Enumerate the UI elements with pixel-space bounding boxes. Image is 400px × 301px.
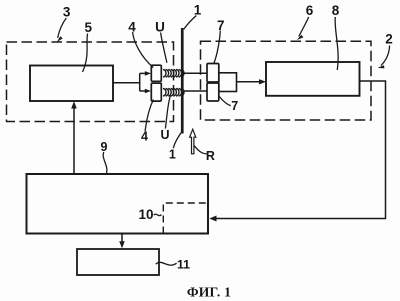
leader for label 7 top — [214, 31, 221, 64]
svg-text:ФИГ. 1: ФИГ. 1 — [187, 285, 231, 300]
arrow from block 9 down to block 11 — [121, 234, 123, 243]
leader for label 2 — [381, 46, 390, 66]
svg-text:4: 4 — [128, 20, 136, 35]
leader for label U bottom — [165, 96, 170, 129]
dashed box 10 inside block 9 — [163, 203, 208, 234]
rod lower from bar to element 7 — [184, 90, 207, 92]
dashed box 3 — [7, 42, 174, 122]
spring upper — [163, 70, 184, 77]
svg-text:10: 10 — [138, 207, 153, 222]
block 9 — [27, 174, 209, 234]
leader for label 8 — [335, 17, 338, 70]
arrow into element 4 lower — [140, 90, 146, 92]
leader for label 4 bottom — [145, 100, 153, 132]
bar 1 (membrane) — [181, 28, 184, 134]
element 4 upper square — [151, 65, 161, 81]
svg-text:8: 8 — [332, 3, 340, 18]
svg-text:1: 1 — [194, 3, 202, 18]
squiggle for label 11 — [156, 262, 177, 265]
leader for label 1 top — [184, 16, 197, 30]
block 5 — [30, 66, 113, 102]
svg-text:2: 2 — [385, 32, 393, 47]
arrow into element 4 upper — [140, 72, 146, 74]
svg-text:9: 9 — [101, 140, 108, 154]
rod upper from bar to element 7 — [184, 72, 207, 74]
wire from block 9 up to block 5 — [73, 108, 75, 174]
dashed box 6 — [201, 41, 372, 120]
bracket (splitter) — [139, 73, 141, 91]
svg-text:6: 6 — [306, 3, 314, 18]
leader for label 1 bottom — [173, 132, 182, 149]
svg-text:1: 1 — [169, 148, 176, 162]
svg-text:7: 7 — [217, 18, 225, 33]
svg-text:3: 3 — [63, 4, 71, 19]
svg-text:4: 4 — [141, 129, 148, 143]
element 7 lower square — [207, 83, 219, 101]
leader for label 5 — [83, 34, 88, 73]
leader for label 6 — [299, 17, 309, 37]
svg-text:U: U — [155, 20, 165, 35]
block between 7 and 8 — [219, 73, 237, 92]
block 8 — [266, 62, 360, 96]
arrow from block to block 8 — [237, 81, 260, 83]
svg-text:11: 11 — [177, 258, 190, 272]
wire from block 5 to bracket — [114, 82, 140, 84]
spring lower — [163, 89, 184, 96]
element 7 upper square — [207, 64, 219, 83]
leader for label 3 — [58, 18, 67, 38]
squiggle for label 10 — [154, 214, 162, 216]
svg-text:5: 5 — [85, 20, 93, 35]
element 4 lower square — [151, 83, 161, 101]
leader for label 4 top — [133, 32, 154, 68]
svg-text:U: U — [160, 128, 169, 142]
svg-text:R: R — [206, 149, 215, 163]
leader for label U top — [161, 33, 167, 63]
leader for label 7 bottom — [219, 97, 231, 106]
leader for label 9 — [103, 152, 107, 175]
feedback wire from block 8 to block 9 — [216, 81, 386, 219]
svg-text:7: 7 — [231, 99, 238, 113]
arrow R (reference beam) — [190, 129, 196, 154]
leader for label R — [194, 146, 207, 154]
block 11 — [77, 249, 159, 275]
